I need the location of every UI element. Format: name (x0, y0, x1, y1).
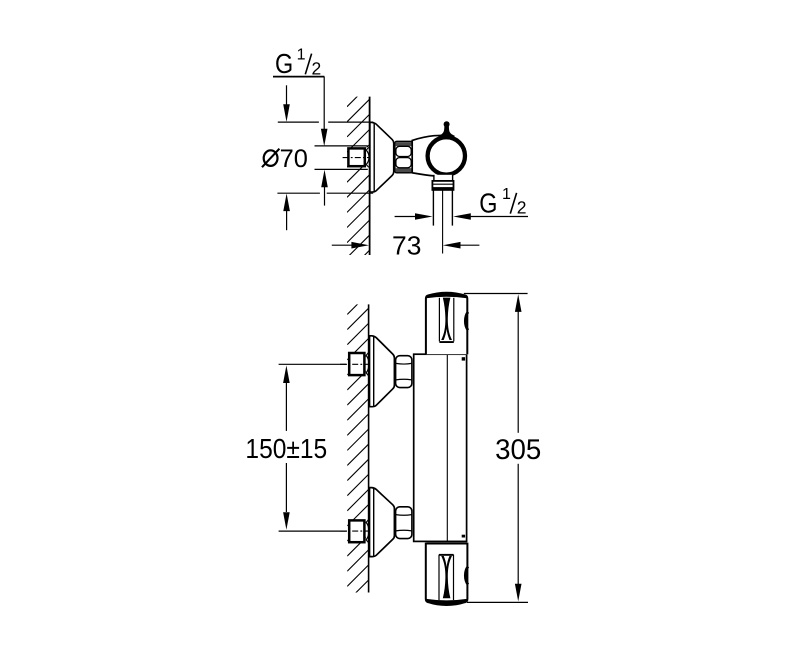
leader arrow down to thread top (321, 77, 328, 147)
top escutcheon rim line (373, 336, 375, 406)
bottom handle cap shading (426, 599, 466, 605)
bottom escutcheon rim line (373, 488, 375, 556)
svg-text:305: 305 (495, 434, 541, 466)
label G1/2 (wall connection thread) (275, 47, 321, 79)
extension line escutcheon bottom (O70 dim) (277, 192, 373, 194)
dim 150+-15 line with arrows (283, 365, 290, 529)
svg-text:2: 2 (517, 198, 527, 218)
shower hose (433, 190, 452, 226)
label O70 (escutcheon diameter) (262, 145, 308, 173)
dim 305 line with arrows (515, 294, 522, 601)
hose union nut (432, 181, 453, 190)
body top marker (462, 357, 465, 360)
bottom handle side dot arc (465, 566, 468, 584)
wall face line (front view) (368, 304, 370, 592)
svg-text:1: 1 (297, 47, 306, 64)
ext line mixer top (464, 293, 528, 295)
extension line thread top (G1/2 dim) (315, 145, 368, 147)
top union centerline dash-dot (340, 363, 368, 365)
temperature lever (439, 121, 455, 137)
svg-text:2: 2 (312, 58, 322, 78)
dim 73 left arrow to wall (332, 242, 369, 249)
dim 73 right arrow to hose centerline (443, 242, 480, 249)
ext line top union centerline (279, 363, 347, 365)
top union nut (396, 356, 412, 388)
hose centerline (442, 191, 444, 254)
svg-text:G: G (479, 187, 497, 218)
bottom union centerline dash-dot (340, 530, 368, 532)
union nut (side view) (395, 141, 412, 172)
dim G1/2 hose left arrow (395, 213, 433, 220)
bottom union nut (396, 507, 412, 539)
thermostat handle (circle) (428, 137, 465, 174)
top wall union square (349, 352, 369, 376)
G1/2 bottom arrow (up to thread bottom) (321, 170, 328, 206)
svg-text:73: 73 (392, 230, 421, 260)
wall hatching (front view) (347, 278, 369, 617)
body contour line (446, 354, 448, 541)
bottom handle (volume) (426, 543, 468, 605)
dim G1/2 hose right arrow (453, 213, 528, 220)
wall hatching (side view) (347, 69, 370, 273)
bottom handle top shading band (426, 542, 467, 544)
centerline (dash-dot) of union (343, 157, 370, 159)
svg-text:150±15: 150±15 (245, 433, 327, 464)
escutcheon cone (side view) (370, 122, 394, 192)
bottom wall union square (349, 520, 369, 544)
top handle side dot arc (465, 312, 468, 330)
label G1/2 (hose thread) (479, 186, 526, 219)
outlet stub (434, 175, 453, 181)
top escutcheon cone (370, 336, 395, 407)
body bottom marker (462, 535, 465, 538)
top handle (temperature) (426, 293, 467, 355)
svg-text:G: G (275, 48, 293, 79)
bottom escutcheon cone (370, 488, 395, 557)
leader line under G1/2 (273, 76, 324, 78)
top handle cap shading (426, 292, 467, 298)
O70 bottom arrow (283, 194, 290, 231)
wall union square (side view) (348, 147, 369, 167)
escutcheon rim line (373, 123, 375, 192)
svg-text:1: 1 (502, 186, 511, 203)
body/handle gap shadow (426, 541, 466, 542)
valve body (side view) (412, 135, 446, 176)
wall face line (side view) (369, 97, 371, 255)
mixer body column (414, 354, 467, 541)
svg-text:70: 70 (280, 145, 308, 173)
ext line bottom union centerline (279, 530, 347, 532)
extension line escutcheon top (O70 dim) (278, 121, 373, 123)
ext line mixer bottom (467, 601, 528, 603)
top handle grip groove (439, 298, 453, 343)
O70 top arrow (283, 85, 290, 122)
extension line thread bottom (G1/2 dim) (315, 168, 368, 170)
bottom handle grip groove (439, 554, 454, 600)
